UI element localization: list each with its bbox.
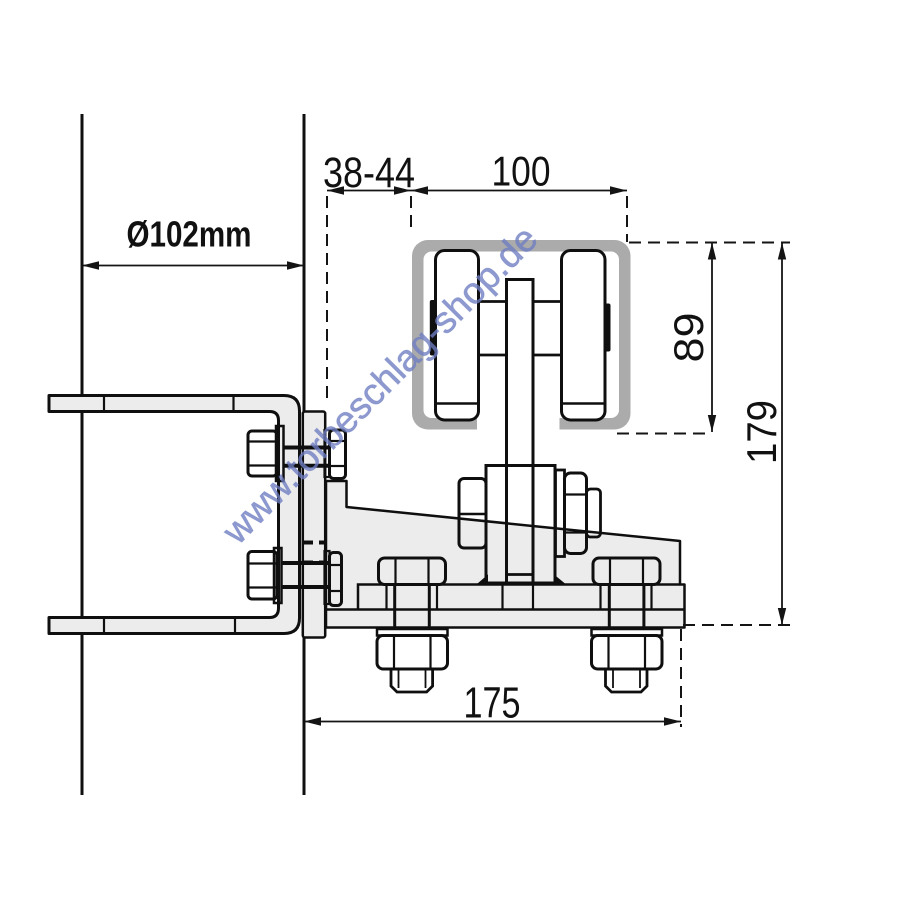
right base bolt upper nut facet 2: [642, 558, 644, 585]
lower plate bolt washer right: [325, 551, 330, 604]
bracket wedge body with base rows: [326, 481, 685, 628]
right roller: [562, 251, 606, 421]
upper plate bolt shank top line: [283, 446, 328, 450]
upper plate bolt hex head: [248, 431, 277, 476]
dimension 89 line: [708, 243, 716, 433]
suspension shaft end cap line: [507, 573, 534, 576]
left roller hub patch: [430, 300, 436, 356]
right base bolt lower nut facet 1: [607, 636, 609, 670]
extension dashed line x327: [326, 196, 328, 405]
lower plate bolt head facet upper: [248, 562, 277, 564]
svg-text:38-44: 38-44: [323, 149, 415, 197]
svg-text:175: 175: [464, 679, 521, 728]
clamp top bar tick 2: [232, 396, 234, 412]
upper plate bolt nut: [330, 430, 346, 479]
left base bolt washer: [377, 629, 448, 636]
dimension Ø102mm line: [82, 261, 304, 269]
right base bolt washer: [592, 629, 663, 636]
right base bolt lower nut facet 2: [644, 636, 646, 670]
clamp bottom bar tick 2: [234, 618, 236, 634]
extension dashed line y625: [683, 624, 790, 626]
upper plate bolt head facet upper: [248, 440, 277, 442]
right base bolt lower nut: [592, 636, 663, 670]
base plate divider line: [326, 608, 685, 611]
clamp bolt locknut: [587, 489, 601, 537]
clamp bottom bar tick 1: [103, 618, 105, 634]
clamp bolt hex nut left facet: [459, 513, 486, 516]
right base bolt shank: [608, 585, 611, 631]
lower plate bolt hex head: [248, 552, 277, 600]
base row tick a: [385, 585, 387, 610]
lower plate bolt head facet lower: [248, 586, 277, 588]
right roller hub patch: [605, 304, 611, 352]
left base bolt thread line 1: [398, 669, 400, 688]
left base bolt thread line 2: [425, 669, 427, 688]
post left line: [81, 114, 84, 795]
right base bolt upper nut: [593, 558, 660, 585]
left base bolt upper nut facet 1: [394, 558, 396, 585]
hidden hole dashes upper: [304, 541, 326, 545]
extension dashed line x627: [626, 196, 628, 242]
extension dashed line y433: [617, 433, 712, 435]
extension dashed line x411: [410, 196, 412, 233]
post right line: [303, 114, 306, 795]
clamp bolt hex nut left: [459, 479, 486, 549]
clamp bolt hex nut right: [565, 473, 587, 554]
C-rail profile inner cavity: [424, 252, 620, 419]
right roller flange line: [562, 402, 605, 405]
left base bolt upper nut: [379, 558, 446, 585]
clamp bolt hex nut right facet lower: [565, 531, 587, 533]
trolley mounting plate: [303, 412, 325, 638]
shaft clamp block left foot: [478, 575, 489, 584]
svg-text:Ø102mm: Ø102mm: [127, 214, 252, 255]
roller axle upper line right: [533, 300, 562, 303]
suspension shaft: [507, 280, 534, 584]
clamp bracket U-yoke: [49, 396, 300, 634]
upper plate bolt head facet lower: [248, 464, 277, 466]
base row tick d: [532, 585, 534, 610]
lower plate bolt nut facet upper: [330, 564, 342, 566]
left base bolt lower nut: [377, 636, 448, 670]
hidden hole dashes lower: [304, 561, 326, 565]
right base bolt thread line 1: [612, 669, 614, 688]
upper plate bolt washer left: [276, 426, 284, 481]
left base bolt lower nut facet 1: [393, 636, 395, 670]
base row tick f: [650, 585, 652, 610]
left roller flange line: [436, 402, 478, 405]
clamp top bar tick 1: [103, 396, 105, 412]
base row top edge: [358, 585, 680, 610]
right base bolt thread line 2: [639, 669, 641, 688]
dimension 179 line: [778, 243, 786, 626]
svg-text:100: 100: [492, 148, 551, 195]
C-rail profile outer: [412, 240, 631, 430]
svg-text:89: 89: [665, 313, 712, 363]
roller axle lower line right: [533, 354, 562, 357]
lower plate bolt washer left: [274, 548, 282, 603]
upper plate bolt washer right: [325, 430, 330, 477]
clamp bolt washer right: [556, 470, 565, 557]
upper plate bolt shank bottom line: [283, 464, 328, 468]
base row tick e: [599, 585, 601, 610]
base row tick b: [436, 585, 438, 610]
shaft clamp block right foot: [554, 575, 565, 584]
lower plate bolt nut facet lower: [330, 590, 342, 592]
dimension 38-44 and 100 shared line: [327, 186, 627, 194]
left base bolt shank end: [391, 669, 433, 692]
left base bolt upper nut facet 2: [427, 558, 429, 585]
right base bolt upper nut facet 1: [609, 558, 611, 585]
extension dashed line x681: [680, 629, 682, 727]
dimension 175 line: [304, 717, 681, 725]
shaft clamp block: [486, 466, 555, 584]
left base bolt lower nut facet 2: [429, 636, 431, 670]
clamp bolt hex nut right facet upper: [565, 493, 587, 495]
lower plate bolt shank top line: [281, 561, 328, 565]
roller axle upper line left: [479, 300, 507, 303]
svg-text:179: 179: [738, 400, 785, 464]
left base bolt shank: [393, 585, 396, 631]
roller axle lower line left: [479, 354, 507, 357]
left roller: [436, 251, 479, 421]
lower plate bolt shank bottom line: [281, 585, 328, 589]
upper plate bolt nut facet lower: [330, 465, 346, 467]
C-rail bottom opening: [477, 415, 560, 432]
lower plate bolt nut: [330, 553, 342, 606]
right base bolt shank end: [606, 669, 648, 692]
upper plate bolt nut facet upper: [330, 440, 346, 442]
extension dashed line y242: [629, 242, 790, 244]
base row tick c: [501, 585, 503, 610]
